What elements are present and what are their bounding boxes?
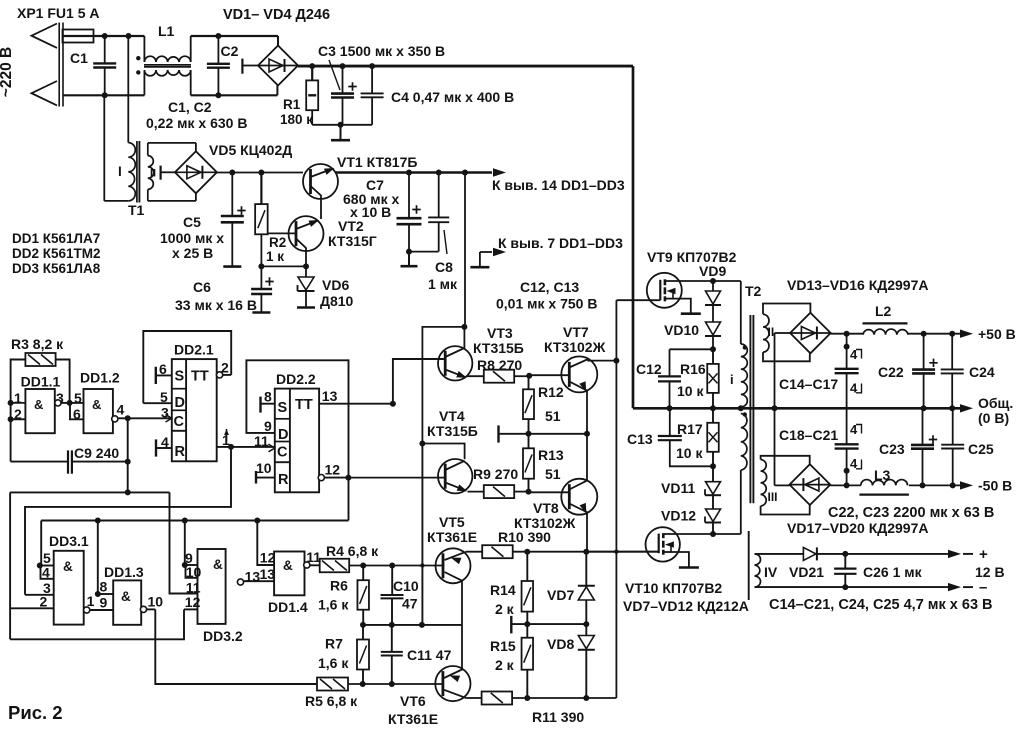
resistor R14: [490, 552, 533, 624]
svg-text:12 В: 12 В: [975, 564, 1005, 580]
wire DD2.2 Q13 to VT3 base: [393, 359, 445, 404]
svg-text:1: 1: [87, 593, 95, 609]
arrow to pin 7 DD1-DD3: [470, 235, 623, 267]
svg-text:TT: TT: [191, 369, 209, 385]
wire DD2.1 out1 to DD3.1 pin3: [25, 447, 231, 595]
capacitors C14-C17: [779, 334, 862, 409]
DD3.2 pin 12 wire: [10, 609, 197, 639]
DD3.1 pin 2 wire: [10, 607, 54, 609]
resistor R10: [466, 529, 659, 558]
DD3.1 pin 3 wire: [25, 594, 54, 596]
svg-text:R8 270: R8 270: [477, 357, 522, 373]
diode VD7: [547, 552, 595, 624]
transistor VT4: [427, 408, 478, 493]
svg-text:C23: C23: [879, 441, 905, 457]
resistor R17: [676, 408, 719, 466]
svg-text:DD2.2: DD2.2: [276, 371, 316, 387]
wire rectified rail: [298, 63, 633, 69]
svg-text:C12, C13: C12, C13: [520, 279, 579, 295]
svg-text:D: D: [278, 427, 288, 443]
svg-text:C4 0,47 мк x 400 В: C4 0,47 мк x 400 В: [391, 89, 514, 105]
DD2.2 pin 8 S stub: [261, 389, 275, 413]
svg-text:1 мк: 1 мк: [428, 276, 458, 292]
svg-text:DD3.1: DD3.1: [49, 533, 89, 549]
svg-text:II: II: [768, 325, 775, 339]
inductor L2: [863, 303, 909, 335]
svg-text:DD1.1: DD1.1: [21, 374, 61, 390]
svg-text:C14–C17: C14–C17: [779, 376, 838, 392]
svg-text:1 к: 1 к: [266, 249, 284, 264]
svg-text:R12: R12: [538, 384, 564, 400]
DD2.1 pin 5 D wire: [143, 389, 172, 405]
svg-text:R16: R16: [680, 361, 706, 377]
gate DD1.1: [14, 374, 64, 434]
wire C7 C8 ground: [401, 249, 439, 267]
svg-text:&: &: [92, 397, 101, 412]
wire R6 C10 junction row: [360, 622, 462, 628]
DD1.4 pin 12 wire: [257, 521, 274, 566]
DD1.3 output bubble: [140, 594, 163, 613]
svg-text:C18–C21: C18–C21: [779, 427, 838, 443]
svg-text:I: I: [118, 164, 122, 179]
resistor R2: [255, 173, 286, 267]
svg-text:КТ315Б: КТ315Б: [473, 340, 524, 356]
DD3.2 pin 11 wire: [170, 492, 198, 593]
diode VD10: [664, 305, 721, 349]
svg-text:L2: L2: [875, 303, 892, 319]
svg-text:VD5 КЦ402Д: VD5 КЦ402Д: [209, 142, 292, 158]
wire to T1 primary top: [127, 36, 129, 143]
svg-text:КТ361Е: КТ361Е: [388, 711, 438, 727]
arrow common 0V: [960, 395, 1013, 426]
capacitor C25: [941, 408, 994, 485]
transistor VT1: [303, 164, 338, 219]
gate DD1.3: [100, 564, 144, 625]
svg-text:VD12: VD12: [661, 508, 696, 524]
wire DD1.1 inputs: [8, 400, 26, 422]
svg-text:13: 13: [260, 566, 276, 582]
svg-text:КТ361Е: КТ361Е: [427, 529, 477, 545]
wire gate bus vertical: [613, 300, 619, 698]
rectifier bridge VD1-VD4: [242, 46, 298, 86]
svg-text:6: 6: [159, 361, 167, 377]
label VT2 KT315G: [328, 218, 377, 249]
svg-text:~220 В: ~220 В: [0, 47, 15, 97]
inductor L3: [859, 467, 909, 495]
capacitor C3: [318, 43, 445, 125]
capacitor C11: [381, 625, 452, 684]
svg-text:12: 12: [260, 549, 276, 565]
svg-text:DD1 К561ЛА7: DD1 К561ЛА7: [12, 231, 100, 246]
gate DD3.1: [40, 533, 89, 625]
svg-text:C25: C25: [968, 441, 994, 457]
resistor R13: [523, 434, 564, 492]
svg-text:D: D: [175, 395, 185, 411]
flip-flop DD2.1: [172, 342, 217, 462]
svg-text:R13: R13: [538, 447, 564, 463]
zener diode VD11: [661, 466, 721, 496]
capacitor C2: [207, 36, 239, 95]
wire Q12 to VT4 base: [348, 477, 445, 479]
wire R1 C3 C4 junction: [312, 122, 372, 128]
capacitor C10: [381, 566, 419, 625]
svg-text:0,01 мк x 750 В: 0,01 мк x 750 В: [496, 296, 597, 312]
svg-text:VD7: VD7: [547, 587, 574, 603]
svg-text:DD1.2: DD1.2: [80, 370, 120, 386]
MOSFET VT9: [647, 249, 737, 314]
DD3.1 output 1 bubble: [84, 593, 114, 613]
svg-text:9: 9: [264, 418, 272, 434]
svg-text:L3: L3: [874, 467, 891, 483]
svg-text:i: i: [730, 372, 734, 387]
svg-text:C22: C22: [878, 364, 904, 380]
svg-text:C1, C2: C1, C2: [168, 99, 212, 115]
gate DD1.4: [260, 549, 322, 615]
zener diode VD12: [661, 496, 721, 535]
resistor R3: [11, 336, 64, 366]
resistor R7: [318, 625, 369, 684]
wire common bus: [633, 405, 960, 411]
svg-text:8: 8: [264, 389, 272, 405]
wire +12V line: [842, 546, 988, 563]
svg-text:VD21: VD21: [789, 564, 824, 580]
wire R2 to VT2 base: [268, 232, 296, 234]
svg-text:DD3.2: DD3.2: [203, 628, 243, 644]
svg-text:КТ3102Ж: КТ3102Ж: [544, 339, 606, 355]
svg-text:DD1.3: DD1.3: [104, 564, 144, 580]
svg-text:C24: C24: [969, 364, 995, 380]
svg-text:2: 2: [221, 360, 229, 376]
resistor R12: [523, 376, 564, 434]
svg-text:10 к: 10 к: [677, 383, 704, 399]
svg-text:12: 12: [325, 462, 341, 478]
svg-text:Рис. 2: Рис. 2: [8, 702, 63, 723]
svg-text:R10 390: R10 390: [498, 529, 551, 545]
wire L1 to bridge bottom: [191, 86, 278, 99]
svg-text:КТ315Б: КТ315Б: [427, 423, 478, 439]
svg-text:–: –: [979, 579, 987, 596]
svg-text:DD3 К561ЛА8: DD3 К561ЛА8: [12, 261, 101, 276]
transistor VT8: [514, 434, 597, 551]
capacitor C9: [11, 419, 131, 473]
svg-text:51: 51: [545, 466, 561, 482]
transistor VT5: [392, 514, 477, 625]
svg-text:VD13–VD16 КД2997А: VD13–VD16 КД2997А: [787, 277, 929, 293]
svg-text:VD17–VD20 КД2997А: VD17–VD20 КД2997А: [787, 520, 929, 536]
capacitor C24: [941, 334, 995, 409]
capacitor C7: [343, 173, 422, 252]
svg-text:КТ315Г: КТ315Г: [328, 233, 377, 249]
svg-text:C12: C12: [636, 361, 662, 377]
wire mid ground row: [499, 425, 591, 442]
resistor R16: [677, 349, 719, 408]
svg-text:R6: R6: [330, 578, 348, 594]
DD3.2 output 13 bubble: [237, 569, 274, 586]
svg-text:R17: R17: [677, 421, 703, 437]
svg-text:S: S: [278, 400, 288, 416]
svg-text:0,22 мк x 630 В: 0,22 мк x 630 В: [146, 115, 247, 131]
svg-text:x 25 В: x 25 В: [172, 245, 213, 261]
wire DD1.2 inputs: [70, 403, 84, 419]
wire R14 R15 mid row: [511, 616, 589, 634]
svg-text:II: II: [150, 168, 156, 180]
diode VD9: [699, 263, 726, 305]
svg-text:51: 51: [545, 408, 561, 424]
svg-text:VT4: VT4: [439, 408, 465, 424]
svg-text:11: 11: [254, 433, 269, 449]
svg-text:Общ.: Общ.: [978, 395, 1013, 411]
MOSFET VT10: [623, 527, 749, 614]
svg-text:&: &: [213, 557, 223, 572]
svg-text:1,6 к: 1,6 к: [318, 655, 349, 671]
zener diode VD6: [297, 266, 354, 309]
svg-text:VT7: VT7: [563, 324, 589, 340]
svg-text:VD7–VD12 КД212А: VD7–VD12 КД212А: [623, 598, 749, 614]
fuse FU1: [63, 30, 94, 43]
wire DD1.2 output to DD2.1 C: [125, 415, 172, 421]
svg-text:&: &: [121, 589, 131, 604]
resistor R6: [318, 566, 369, 625]
resistor R9: [468, 466, 532, 498]
gate DD1.2: [73, 370, 125, 434]
wire bus B: [41, 518, 348, 524]
svg-text:DD1.4: DD1.4: [268, 599, 308, 615]
capacitor C12: [636, 349, 681, 408]
svg-text:Д810: Д810: [320, 293, 354, 309]
wire DD1.3 out to R5: [155, 609, 317, 684]
svg-text:VT6: VT6: [400, 693, 426, 709]
winding II: [763, 304, 810, 362]
svg-text:R9 270: R9 270: [473, 466, 518, 482]
svg-text:VT5: VT5: [439, 514, 465, 530]
svg-text:К выв. 14 DD1–DD3: К выв. 14 DD1–DD3: [492, 177, 625, 193]
svg-text:C10: C10: [393, 578, 419, 594]
svg-text:VD11: VD11: [661, 480, 695, 496]
svg-text:VT1 КТ817Б: VT1 КТ817Б: [337, 154, 417, 170]
svg-text:VD8: VD8: [547, 636, 574, 652]
winding III: [761, 456, 810, 515]
svg-text:C5: C5: [183, 214, 201, 230]
svg-text:4: 4: [117, 402, 125, 418]
svg-text:C9 240: C9 240: [74, 445, 119, 461]
svg-text:R14: R14: [490, 582, 516, 598]
DD2.2 pin 10 R stub: [256, 460, 275, 484]
svg-text:5: 5: [160, 389, 168, 405]
DD3.2 pins 9 10 wires: [182, 521, 198, 578]
wire VT10 drain line: [680, 531, 741, 537]
wire +50V line: [908, 326, 1016, 342]
DD2.1 pin 4 R stub: [156, 434, 172, 457]
resistor R1: [280, 66, 318, 127]
svg-text:180 к: 180 к: [280, 112, 313, 127]
svg-text:+: +: [979, 546, 988, 563]
resistor R5: [305, 678, 395, 710]
gate DD3.2: [185, 549, 243, 644]
svg-text:VD9: VD9: [699, 263, 726, 279]
wire VT4 collector link: [422, 444, 464, 460]
svg-text:10 к: 10 к: [676, 445, 703, 461]
svg-text:-50 В: -50 В: [978, 478, 1012, 494]
svg-text:+50 В: +50 В: [978, 326, 1016, 342]
label C12 C13 value: [496, 279, 597, 312]
svg-text:XP1 FU1 5 А: XP1 FU1 5 А: [17, 5, 99, 21]
svg-text:R: R: [175, 444, 186, 460]
svg-text:12: 12: [185, 594, 201, 610]
svg-text:R7: R7: [325, 636, 343, 652]
wire VT9 drain: [681, 278, 741, 284]
wire HV feed: [632, 66, 635, 408]
svg-text:TT: TT: [295, 397, 313, 413]
svg-text:&: &: [34, 397, 43, 412]
wire VD10 R16 node: [670, 346, 717, 352]
svg-text:VT8: VT8: [533, 500, 559, 516]
svg-text:2 к: 2 к: [495, 657, 515, 673]
wire 5V to drivers: [419, 173, 467, 447]
wire to T1 primary bottom: [104, 95, 128, 201]
svg-text:L1: L1: [158, 23, 175, 39]
gate DD1.1 output bubble: [55, 400, 73, 406]
svg-text:9: 9: [100, 595, 108, 611]
connector XP1: [32, 23, 64, 107]
svg-text:R5 6,8 к: R5 6,8 к: [305, 693, 358, 709]
svg-text:C6: C6: [193, 279, 211, 295]
svg-text:C26 1 мк: C26 1 мк: [863, 564, 923, 580]
wire VD5 output: [217, 170, 303, 176]
capacitor C22: [878, 334, 938, 409]
gate DD1.2 output bubble: [112, 416, 128, 422]
svg-text:R3 8,2 к: R3 8,2 к: [11, 336, 64, 352]
capacitor C5: [160, 173, 246, 267]
svg-text:III: III: [768, 490, 778, 504]
svg-text:C: C: [174, 414, 185, 430]
wire R2 bottom node: [258, 263, 309, 269]
svg-text:C: C: [277, 445, 288, 461]
resistor R15: [490, 624, 533, 698]
resistor R11: [467, 692, 617, 726]
wire bridge II output: [831, 331, 863, 350]
transistor VT6: [388, 625, 471, 727]
capacitor C26: [834, 554, 923, 587]
svg-text:R15: R15: [490, 638, 516, 654]
resistor R4: [320, 543, 396, 572]
wire bridge III left vertex: [775, 484, 790, 486]
wire R3 loop right: [56, 360, 70, 403]
svg-text:DD2 К561ТМ2: DD2 К561ТМ2: [12, 246, 101, 261]
wire vert 422 down: [419, 444, 425, 628]
wire Q12 down to bus B: [348, 478, 350, 521]
capacitor C8: [428, 173, 458, 293]
wire bus B to DD3.1 pins: [37, 521, 54, 579]
rectifier bridge VD13-VD16: [790, 313, 831, 354]
svg-text:C3 1500 мк x 350 В: C3 1500 мк x 350 В: [318, 43, 445, 59]
rectifier bridge VD17-VD20: [790, 464, 831, 505]
transistor VT7: [529, 324, 616, 434]
svg-text:C2: C2: [221, 43, 239, 59]
winding IV: [755, 554, 778, 587]
DD2.1 output 2 bubble: [217, 360, 232, 379]
wire -12V line: [755, 579, 988, 596]
wire VT10 gate line: [586, 551, 658, 553]
DD2.2 output 12 bubble: [318, 462, 351, 481]
svg-text:10: 10: [256, 460, 272, 476]
wire -50V line: [830, 478, 1012, 494]
svg-text:C22, C23 2200 мк x 63 В: C22, C23 2200 мк x 63 В: [828, 505, 994, 521]
svg-text:R11 390: R11 390: [532, 709, 584, 725]
ground below C3: [340, 125, 342, 140]
svg-text:VD6: VD6: [322, 277, 349, 293]
DD2.1 pin 3 C wire: [161, 405, 172, 423]
DD2.1 pin 6 S stub: [156, 361, 172, 384]
wire DD2.1 feedback loop: [143, 331, 231, 403]
svg-text:C8: C8: [435, 259, 453, 275]
capacitor C13: [627, 408, 716, 469]
transformer T1: [118, 141, 196, 218]
svg-text:33 мк x 16 В: 33 мк x 16 В: [175, 297, 257, 313]
transistor VT2: [289, 216, 324, 266]
capacitors C18-C21: [779, 408, 862, 485]
svg-text:VD1– VD4 Д246: VD1– VD4 Д246: [223, 7, 330, 23]
svg-text:&: &: [63, 559, 73, 574]
svg-text:4: 4: [42, 565, 50, 581]
svg-text:DD2.1: DD2.1: [174, 342, 214, 358]
label DD1 DD2 DD3 types: [12, 231, 101, 276]
svg-text:VT2: VT2: [338, 218, 364, 234]
transformer output core: [748, 531, 750, 600]
svg-text:R4 6,8 к: R4 6,8 к: [326, 543, 379, 559]
wire mains bottom: [63, 92, 144, 98]
svg-text:C1: C1: [70, 50, 88, 66]
svg-text:3: 3: [161, 405, 169, 421]
diode VD21: [755, 547, 846, 580]
transistor VT3: [438, 325, 524, 380]
svg-text:T1: T1: [128, 202, 145, 218]
arrow to pin 14 DD1-DD3: [492, 168, 625, 193]
svg-text:&: &: [283, 558, 293, 573]
svg-text:13: 13: [245, 569, 261, 585]
wire L1 to bridge top: [191, 33, 278, 46]
wire mains top: [63, 33, 144, 39]
svg-text:IV: IV: [764, 564, 778, 580]
svg-text:10: 10: [148, 594, 164, 610]
svg-text:2: 2: [40, 594, 48, 610]
svg-text:R: R: [278, 472, 289, 488]
DD2.2 pin 9 D loop: [246, 360, 348, 477]
wire VT9 gate: [616, 299, 660, 301]
capacitor C23: [879, 408, 937, 485]
svg-text:VD10: VD10: [664, 322, 699, 338]
label C1 C2 value: [146, 99, 247, 131]
DD2.2 output 13 wire: [319, 388, 396, 407]
svg-text:8: 8: [100, 578, 108, 594]
capacitor C6: [175, 266, 274, 313]
wire 5V rail: [336, 170, 492, 176]
svg-text:x 10 В: x 10 В: [350, 204, 391, 220]
svg-text:VT3: VT3: [487, 325, 513, 341]
svg-text:C14–C21, C24, C25 4,7 мк x 63: C14–C21, C24, C25 4,7 мк x 63 В: [769, 597, 993, 613]
svg-text:R1: R1: [283, 97, 301, 112]
svg-text:2 к: 2 к: [495, 601, 515, 617]
capacitor C1: [70, 36, 116, 95]
svg-text:C11 47: C11 47: [407, 647, 452, 663]
svg-text:(0 В): (0 В): [978, 410, 1009, 426]
svg-text:1000 мк x: 1000 мк x: [160, 230, 224, 246]
wire C9 node down: [127, 418, 129, 492]
DD2.1 output 1 wire: [217, 429, 275, 450]
svg-text:VT10 КП707В2: VT10 КП707В2: [625, 580, 722, 596]
transformer T2 primary: [730, 281, 762, 534]
rectifier bridge VD5: [161, 151, 217, 193]
svg-text:К выв. 7 DD1–DD3: К выв. 7 DD1–DD3: [498, 235, 623, 251]
